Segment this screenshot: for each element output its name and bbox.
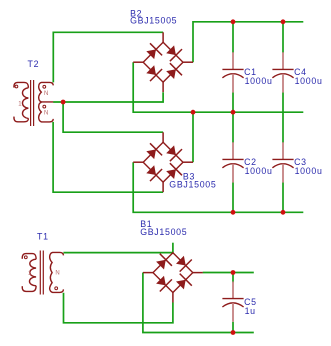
svg-text:T1: T1 [37,231,49,241]
svg-text:N: N [44,111,48,117]
svg-text:1: 1 [18,101,22,107]
svg-text:GBJ15005: GBJ15005 [140,227,187,237]
svg-text:T2: T2 [28,59,40,69]
svg-text:1u: 1u [245,306,256,316]
svg-text:1000u: 1000u [295,76,323,86]
svg-text:GBJ15005: GBJ15005 [169,180,216,190]
svg-text:GBJ15005: GBJ15005 [130,16,177,26]
svg-text:N: N [44,91,48,97]
svg-text:1000u: 1000u [245,166,273,176]
svg-text:N: N [55,271,59,277]
svg-text:1000u: 1000u [245,76,273,86]
svg-text:1000u: 1000u [295,166,323,176]
